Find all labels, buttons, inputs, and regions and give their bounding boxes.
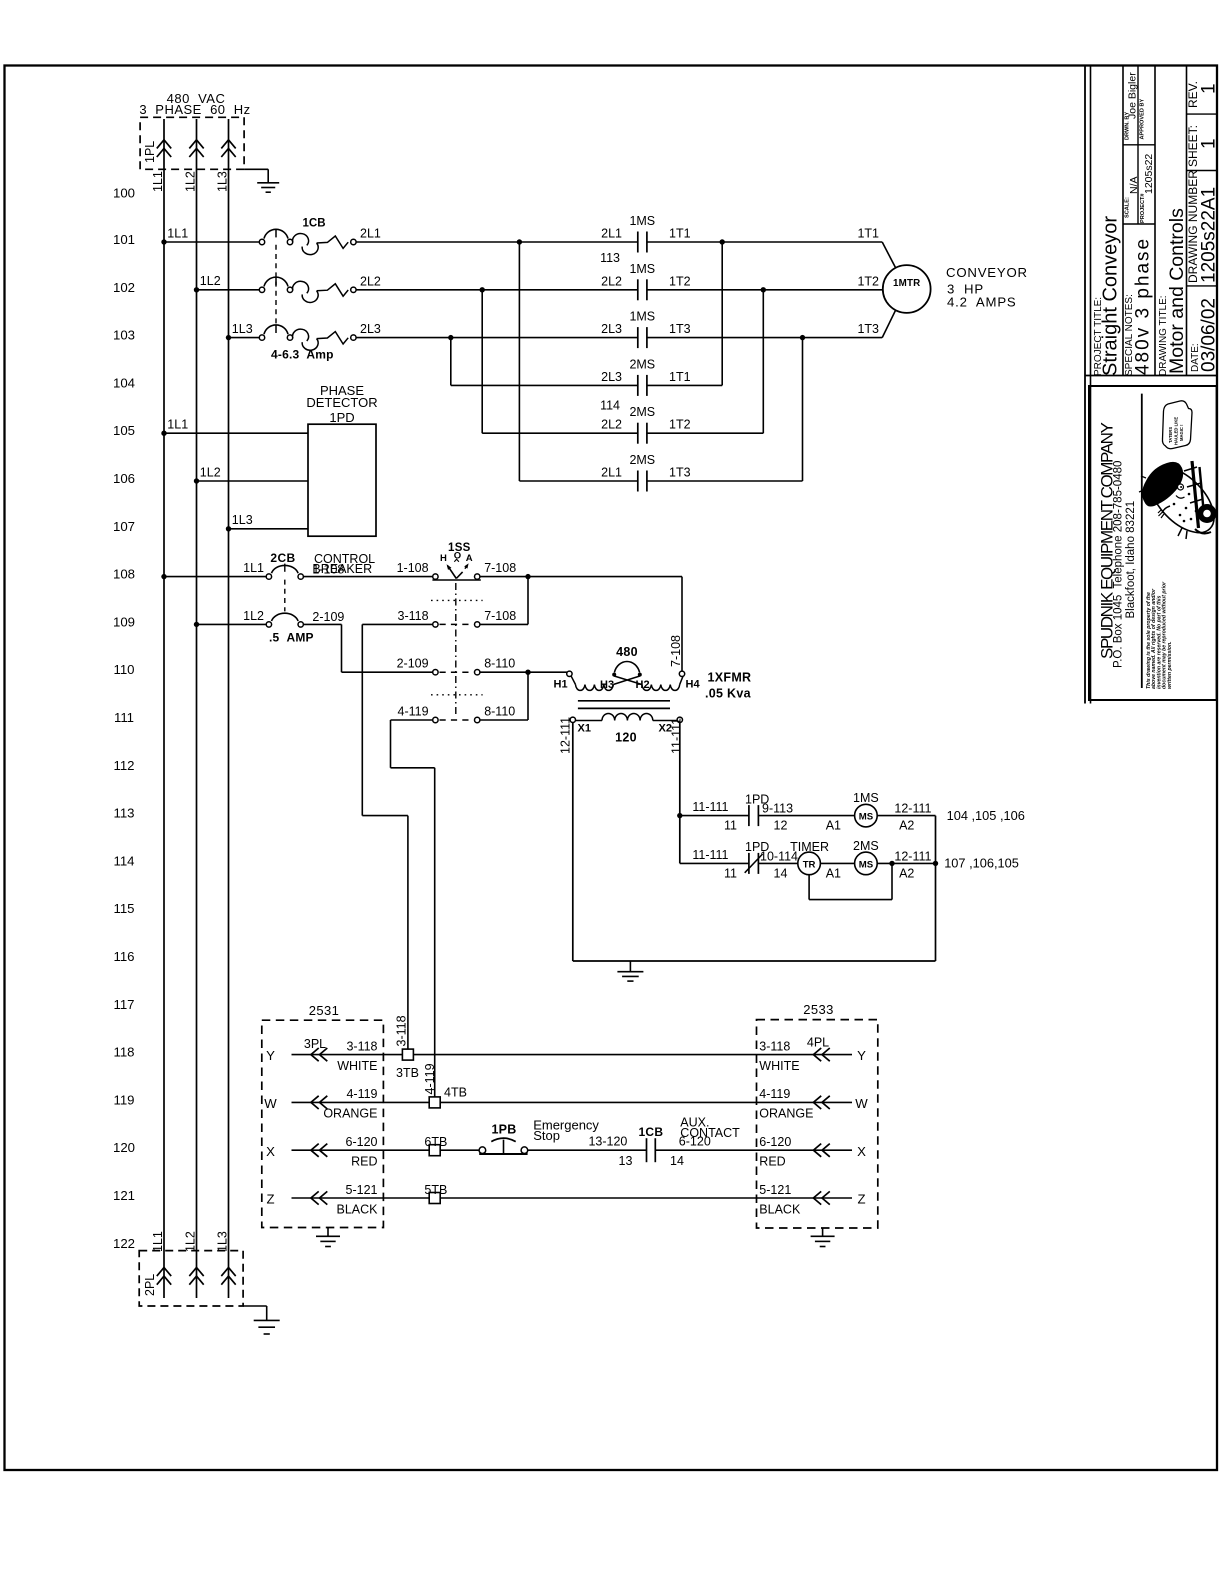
svg-text:1205s22: 1205s22 [1143, 154, 1155, 194]
svg-text:13: 13 [619, 1154, 633, 1168]
svg-text:2L1: 2L1 [601, 227, 622, 241]
svg-text:2L2: 2L2 [601, 274, 622, 288]
svg-text:1T2: 1T2 [669, 274, 691, 288]
svg-text:Z: Z [857, 1192, 865, 1207]
svg-text:written permission.: written permission. [1167, 641, 1173, 689]
svg-text:2MS: 2MS [853, 839, 879, 853]
svg-text:1L2: 1L2 [243, 609, 264, 623]
svg-text:14: 14 [670, 1154, 684, 1168]
svg-text:Y: Y [266, 1048, 275, 1063]
svg-text:5-121: 5-121 [346, 1183, 378, 1197]
svg-text:107 ,106,105: 107 ,106,105 [944, 856, 1019, 871]
svg-text:11-111: 11-111 [692, 848, 728, 862]
svg-text:2MS: 2MS [629, 453, 655, 467]
svg-text:2L2: 2L2 [360, 274, 381, 288]
svg-text:112: 112 [113, 758, 134, 773]
svg-text:1205s22A1: 1205s22A1 [1198, 187, 1219, 283]
svg-text:APPROVED BY: APPROVED BY [1140, 99, 1146, 140]
svg-text:7-108: 7-108 [669, 635, 683, 667]
svg-text:110: 110 [113, 662, 134, 677]
svg-text:CONVEYOR: CONVEYOR [946, 265, 1028, 280]
svg-text:BREAKER: BREAKER [312, 562, 372, 576]
svg-text:2L3: 2L3 [601, 322, 622, 336]
svg-text:480v 3 phase: 480v 3 phase [1133, 237, 1154, 375]
svg-text:3-118: 3-118 [395, 1015, 409, 1046]
svg-text:X: X [266, 1144, 275, 1159]
svg-text:2-109: 2-109 [312, 610, 344, 624]
svg-text:TR: TR [803, 859, 816, 870]
svg-text:2MS: 2MS [629, 357, 655, 371]
svg-text:N/A: N/A [1128, 176, 1140, 194]
svg-text:HAULED LIKE: HAULED LIKE [1174, 417, 1179, 445]
svg-text:100: 100 [113, 186, 135, 201]
svg-text:H4: H4 [686, 679, 701, 691]
svg-text:12-111: 12-111 [894, 849, 931, 863]
svg-text:A2: A2 [899, 819, 914, 833]
svg-text:11: 11 [724, 819, 737, 833]
svg-text:2MS: 2MS [629, 405, 655, 419]
svg-text:11-111: 11-111 [692, 800, 728, 814]
svg-text:6-120: 6-120 [759, 1135, 791, 1149]
svg-text:1CB: 1CB [303, 218, 326, 230]
svg-text:ORANGE: ORANGE [759, 1107, 813, 1121]
svg-text:11-111: 11-111 [669, 718, 683, 754]
svg-text:5TB: 5TB [424, 1183, 447, 1197]
svg-text:1T2: 1T2 [857, 274, 879, 288]
svg-text:1L3: 1L3 [216, 1231, 230, 1252]
svg-text:118: 118 [113, 1045, 134, 1060]
svg-text:4.2 AMPS: 4.2 AMPS [947, 294, 1017, 309]
svg-text:1T3: 1T3 [669, 322, 691, 336]
svg-text:DETECTOR: DETECTOR [306, 395, 377, 410]
svg-text:1L3: 1L3 [232, 513, 253, 527]
svg-text:A1: A1 [826, 819, 841, 833]
svg-text:1L1: 1L1 [243, 561, 264, 575]
svg-text:1: 1 [1198, 83, 1219, 94]
svg-text:MS: MS [859, 812, 874, 823]
svg-text:MS: MS [859, 859, 874, 870]
svg-text:4TB: 4TB [444, 1085, 467, 1099]
svg-text:1T2: 1T2 [669, 418, 691, 432]
svg-text:113: 113 [113, 806, 134, 821]
svg-text:6-120: 6-120 [679, 1135, 711, 1149]
svg-text:1MS: 1MS [629, 262, 655, 276]
svg-text:BLACK: BLACK [337, 1202, 379, 1216]
svg-text:H3: H3 [600, 679, 614, 691]
svg-text:BLACK: BLACK [759, 1202, 801, 1216]
svg-text:6TB: 6TB [424, 1135, 447, 1149]
svg-text:103: 103 [113, 328, 135, 343]
svg-text:4PL: 4PL [807, 1035, 829, 1049]
svg-text:12: 12 [774, 819, 788, 833]
svg-text:Blackfoot, Idaho 83221: Blackfoot, Idaho 83221 [1125, 501, 1137, 619]
svg-text:122: 122 [113, 1236, 135, 1251]
svg-text:4-119: 4-119 [423, 1063, 437, 1094]
svg-text:2L1: 2L1 [360, 227, 381, 241]
svg-text:480: 480 [616, 645, 638, 659]
svg-text:2531: 2531 [309, 1003, 340, 1018]
svg-text:8-110: 8-110 [484, 705, 515, 719]
svg-text:116: 116 [113, 949, 134, 964]
svg-text:Z: Z [266, 1192, 274, 1207]
svg-text:A: A [466, 553, 473, 564]
svg-text:1-108: 1-108 [397, 561, 429, 575]
svg-text:4-119: 4-119 [398, 705, 429, 719]
svg-text:106: 106 [113, 471, 135, 486]
svg-text:119: 119 [113, 1092, 134, 1107]
svg-text:9-113: 9-113 [762, 802, 793, 816]
svg-text:1T3: 1T3 [857, 322, 879, 336]
svg-text:PROJECT#: PROJECT# [1140, 193, 1146, 223]
svg-text:1L1: 1L1 [151, 171, 165, 192]
svg-text:3 PHASE 60 Hz: 3 PHASE 60 Hz [139, 102, 250, 117]
svg-text:1PL: 1PL [143, 141, 157, 163]
svg-text:1L3: 1L3 [216, 171, 230, 192]
svg-text:114: 114 [600, 399, 620, 413]
svg-text:TIMER: TIMER [790, 840, 829, 854]
svg-text:7-108: 7-108 [484, 561, 516, 575]
svg-text:3-118: 3-118 [346, 1039, 377, 1053]
svg-text:3PL: 3PL [304, 1037, 326, 1051]
svg-text:14: 14 [774, 866, 788, 880]
svg-text:3-118: 3-118 [759, 1039, 790, 1053]
svg-text:ORANGE: ORANGE [323, 1107, 377, 1121]
svg-text:WHITE: WHITE [337, 1059, 377, 1073]
svg-text:6-120: 6-120 [346, 1135, 378, 1149]
svg-text:3TB: 3TB [396, 1066, 419, 1080]
svg-text:H: H [440, 553, 447, 564]
svg-text:7-108: 7-108 [484, 609, 516, 623]
svg-text:2-109: 2-109 [397, 657, 429, 671]
svg-text:1L1: 1L1 [151, 1231, 165, 1252]
svg-text:TATERS: TATERS [1168, 427, 1173, 443]
svg-text:3-118: 3-118 [398, 609, 429, 623]
svg-text:120: 120 [615, 731, 637, 745]
svg-text:1MTR: 1MTR [893, 278, 920, 289]
svg-text:Straight Conveyor: Straight Conveyor [1100, 216, 1122, 376]
svg-text:13-120: 13-120 [588, 1135, 627, 1149]
svg-text:P.O. Box 1045 Telephone 208-7: P.O. Box 1045 Telephone 208-785-0480 [1113, 461, 1125, 668]
svg-text:X: X [857, 1144, 866, 1159]
svg-text:1MS: 1MS [629, 214, 655, 228]
svg-text:A1: A1 [826, 866, 841, 880]
svg-text:104 ,105 ,106: 104 ,105 ,106 [947, 808, 1025, 823]
svg-text:12-111: 12-111 [559, 717, 573, 754]
svg-text:8-110: 8-110 [484, 657, 515, 671]
svg-text:101: 101 [113, 232, 135, 247]
svg-text:1: 1 [1198, 138, 1219, 149]
svg-text:1L2: 1L2 [184, 1231, 198, 1252]
svg-text:1L3: 1L3 [232, 322, 253, 336]
svg-text:.5 AMP: .5 AMP [269, 631, 314, 645]
svg-text:2L3: 2L3 [360, 322, 381, 336]
svg-text:117: 117 [113, 997, 134, 1012]
svg-text:114: 114 [113, 853, 134, 868]
svg-text:RED: RED [351, 1155, 377, 1169]
svg-text:Joe Bigler: Joe Bigler [1127, 72, 1139, 119]
svg-text:113: 113 [600, 251, 620, 265]
svg-text:1MS: 1MS [853, 791, 879, 805]
svg-text:5-121: 5-121 [759, 1183, 791, 1197]
svg-text:2L2: 2L2 [601, 418, 622, 432]
svg-text:4-119: 4-119 [346, 1087, 377, 1101]
svg-text:W: W [855, 1096, 868, 1111]
svg-text:102: 102 [113, 280, 135, 295]
svg-text:X1: X1 [578, 723, 591, 735]
svg-text:1T1: 1T1 [669, 370, 691, 384]
svg-text:1T1: 1T1 [857, 227, 879, 241]
svg-text:108: 108 [113, 567, 135, 582]
svg-text:1L1: 1L1 [167, 418, 188, 432]
svg-text:2PL: 2PL [143, 1274, 157, 1296]
svg-text:1T3: 1T3 [669, 466, 691, 480]
svg-text:1PB: 1PB [492, 1123, 517, 1137]
svg-text:2L3: 2L3 [601, 370, 622, 384]
svg-text:H2: H2 [636, 679, 650, 691]
svg-text:WHITE: WHITE [759, 1059, 799, 1073]
svg-text:1CB: 1CB [638, 1125, 663, 1139]
svg-text:115: 115 [113, 901, 134, 916]
svg-text:2CB: 2CB [270, 551, 295, 565]
svg-text:Y: Y [857, 1048, 866, 1063]
svg-text:1XFMR: 1XFMR [708, 671, 752, 685]
svg-text:.05 Kva: .05 Kva [705, 687, 752, 701]
svg-text:2L1: 2L1 [601, 466, 622, 480]
svg-text:120: 120 [113, 1140, 135, 1155]
svg-text:121: 121 [113, 1188, 135, 1203]
svg-text:11: 11 [724, 866, 737, 880]
svg-text:109: 109 [113, 614, 135, 629]
svg-text:1L2: 1L2 [184, 171, 198, 192]
svg-text:105: 105 [113, 423, 135, 438]
svg-text:MAGIC !: MAGIC ! [1179, 424, 1184, 441]
svg-text:107: 107 [113, 519, 135, 534]
svg-text:4-6.3 Amp: 4-6.3 Amp [271, 347, 334, 361]
svg-text:4-119: 4-119 [759, 1087, 790, 1101]
svg-text:111: 111 [114, 710, 134, 725]
svg-text:104: 104 [113, 375, 135, 390]
svg-text:A2: A2 [899, 866, 914, 880]
svg-text:1PD: 1PD [329, 410, 354, 425]
svg-text:12-111: 12-111 [894, 802, 931, 816]
svg-text:03/06/02: 03/06/02 [1198, 298, 1219, 372]
svg-text:H1: H1 [554, 679, 568, 691]
svg-text:1L1: 1L1 [167, 226, 188, 240]
svg-text:1T1: 1T1 [669, 227, 691, 241]
svg-text:W: W [264, 1096, 277, 1111]
svg-text:1L2: 1L2 [200, 274, 221, 288]
svg-text:1L2: 1L2 [200, 465, 221, 479]
svg-text:SCALE:: SCALE: [1125, 197, 1131, 218]
svg-text:RED: RED [759, 1155, 785, 1169]
svg-text:Stop: Stop [533, 1128, 560, 1143]
svg-text:Motor and Controls: Motor and Controls [1166, 208, 1188, 374]
svg-text:2533: 2533 [803, 1002, 834, 1017]
svg-text:1MS: 1MS [629, 310, 655, 324]
